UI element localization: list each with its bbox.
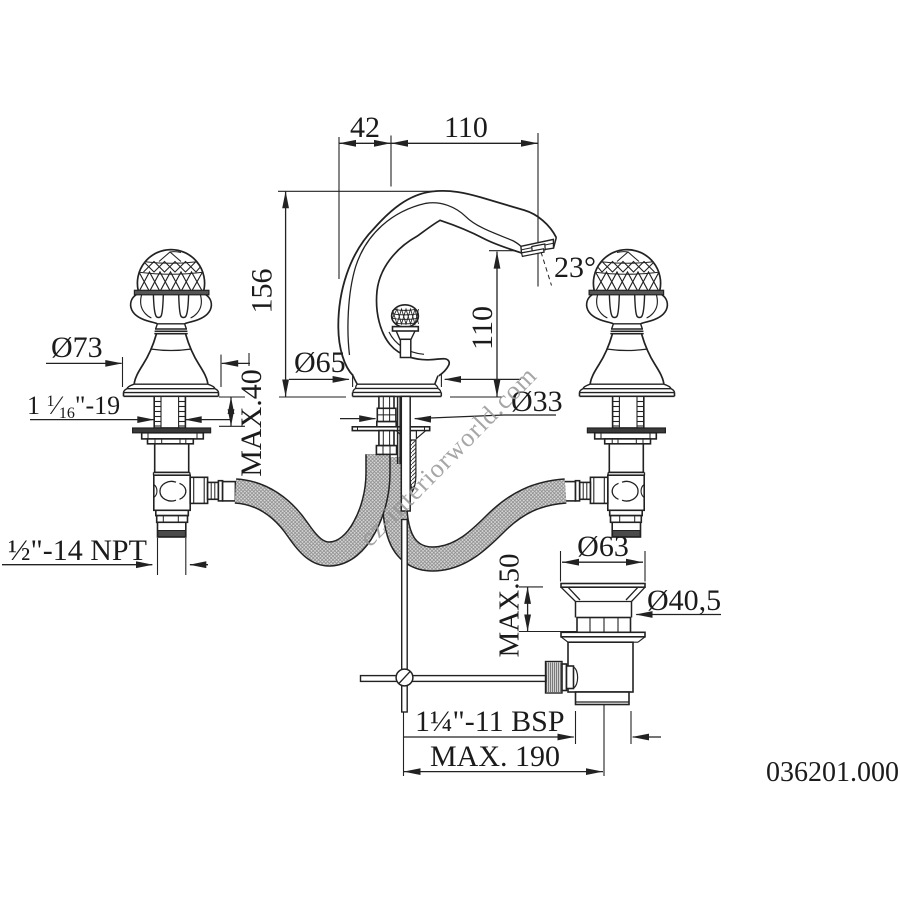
svg-text:MAX.50: MAX.50 — [494, 554, 526, 658]
svg-text:Ø73: Ø73 — [51, 331, 103, 364]
svg-text:Ø40,5: Ø40,5 — [647, 584, 721, 617]
svg-text:036201.000: 036201.000 — [766, 757, 899, 788]
svg-text:42: 42 — [350, 111, 380, 144]
svg-text:MAX. 190: MAX. 190 — [430, 740, 560, 773]
svg-text:Ø65: Ø65 — [294, 346, 346, 379]
svg-text:½"-14 NPT: ½"-14 NPT — [8, 534, 147, 567]
svg-text:110: 110 — [466, 306, 499, 350]
svg-text:110: 110 — [444, 111, 488, 144]
svg-text:156: 156 — [246, 269, 279, 314]
svg-text:23°: 23° — [554, 251, 596, 284]
svg-text:1¼"-11 BSP: 1¼"-11 BSP — [415, 705, 565, 738]
svg-text:MAX.40: MAX.40 — [235, 369, 268, 477]
